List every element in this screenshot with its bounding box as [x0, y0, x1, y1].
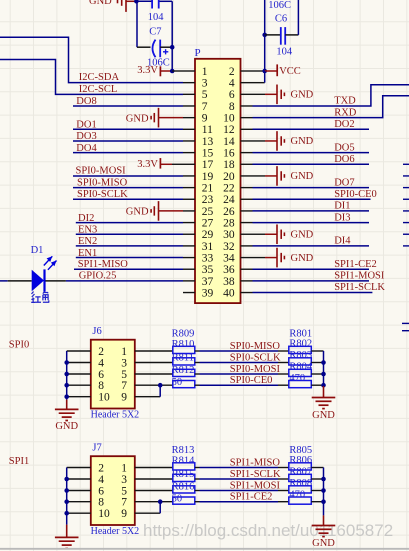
LED D1 on GPIO.25 wire [0, 280, 8, 282]
node [64, 511, 69, 516]
ground pin34 [253, 257, 266, 259]
wire [136, 0, 152, 2]
node cap-loop top-left junction [134, 0, 139, 4]
wire net SPI1-CE2 [195, 501, 200, 503]
pin 36 stub [241, 268, 253, 270]
resistor rect row3 [173, 486, 195, 493]
pin 5 stub [183, 93, 195, 95]
resistor rect right row4 [289, 497, 312, 504]
svg-text:GND: GND [126, 113, 149, 124]
wire [135, 501, 173, 503]
svg-text:GND: GND [291, 229, 314, 240]
svg-text:36: 36 [223, 264, 235, 276]
label red-color (Chinese) [31, 292, 49, 303]
ground right [323, 515, 325, 525]
svg-text:DI1: DI1 [334, 201, 350, 212]
svg-text:GND: GND [312, 538, 335, 549]
wire net GPIO.25 [66, 280, 183, 282]
svg-text:SPI0-SCLK: SPI0-SCLK [230, 353, 281, 364]
pin 21 stub [183, 187, 195, 189]
resistor rect right row1 [289, 463, 312, 470]
pin 14 stub [241, 140, 253, 142]
svg-text:SPI1-MISO: SPI1-MISO [230, 458, 281, 469]
svg-text:GND: GND [291, 136, 314, 147]
wire net I2C-SDA [0, 37, 183, 82]
svg-text:39: 39 [202, 287, 214, 299]
svg-text:SPI0-MISO: SPI0-MISO [230, 341, 281, 352]
resistor rect right row1 [289, 346, 312, 353]
svg-text:J6: J6 [92, 326, 101, 337]
svg-text:30: 30 [223, 229, 235, 241]
svg-text:J7: J7 [92, 443, 101, 454]
pin 30 stub [241, 233, 253, 235]
wire net DI2 [76, 222, 183, 224]
svg-text:SPI0-SCLK: SPI0-SCLK [77, 189, 128, 200]
svg-text:DO5: DO5 [334, 142, 354, 153]
node [64, 499, 69, 504]
wire pin 2 [67, 467, 91, 469]
wire [126, 0, 136, 2]
wire [135, 478, 173, 480]
svg-text:24: 24 [223, 194, 235, 206]
pin 20 stub [241, 175, 253, 177]
svg-text:19: 19 [202, 171, 214, 183]
svg-text:VCC: VCC [279, 66, 301, 77]
svg-text:SPI0-MOSI: SPI0-MOSI [230, 364, 281, 375]
pin 34 stub [241, 257, 253, 259]
wire [311, 478, 323, 480]
wire pin 2 [67, 350, 91, 352]
svg-text:104: 104 [148, 12, 165, 23]
wire net SPI0-MOSI [73, 175, 183, 177]
svg-text:SPI0-CE0: SPI0-CE0 [230, 375, 273, 386]
wire stubs right edge [403, 163, 409, 165]
capacitor C7 value 104 (top, clipped) [151, 0, 153, 9]
wire pin 6 [67, 490, 91, 492]
svg-text:28: 28 [223, 217, 235, 229]
wire net DI3 [253, 222, 370, 224]
wire net DO5 [253, 152, 370, 154]
pin 31 stub [183, 245, 195, 247]
wire gnd bus right [323, 351, 325, 386]
pin 2 stub [241, 70, 253, 72]
svg-text:GND: GND [291, 90, 314, 101]
wire [311, 501, 323, 503]
svg-text:R808: R808 [289, 478, 312, 489]
pin 18 stub [241, 163, 253, 165]
pin 26 stub [241, 210, 253, 212]
wire net SPI0-SCLK [195, 362, 200, 364]
svg-text:470: 470 [289, 373, 305, 384]
svg-text:470: 470 [289, 490, 305, 501]
pin 24 stub [241, 198, 253, 200]
svg-text:R806: R806 [289, 455, 312, 466]
wire gnd bus left [66, 351, 68, 400]
wire [135, 362, 173, 364]
pin 38 stub [241, 280, 253, 282]
svg-text:R814: R814 [172, 455, 196, 466]
wire pin 4 [67, 362, 91, 364]
node [158, 499, 163, 504]
resistor rect right row2 [289, 358, 312, 365]
wire [135, 373, 173, 375]
pin 32 stub [241, 245, 253, 247]
pin 11 stub [183, 128, 195, 130]
svg-text:SPI0-MISO: SPI0-MISO [77, 177, 128, 188]
svg-text:3: 3 [202, 78, 208, 90]
svg-text:34: 34 [223, 252, 235, 264]
pin 40 stub [241, 292, 253, 294]
pin 6 stub [241, 93, 253, 95]
svg-text:13: 13 [202, 136, 214, 148]
svg-text:7: 7 [202, 101, 208, 113]
pin 23 stub [183, 198, 195, 200]
svg-text:Header 5X2: Header 5X2 [91, 526, 140, 537]
node [64, 488, 69, 493]
svg-text:SPI1-MOSI: SPI1-MOSI [334, 271, 385, 282]
pin 4 stub [241, 82, 253, 84]
svg-text:23: 23 [202, 194, 214, 206]
svg-text:SPI1-CE2: SPI1-CE2 [334, 259, 377, 270]
node [321, 360, 326, 365]
svg-text:SPI1-MISO: SPI1-MISO [78, 259, 129, 270]
node [321, 477, 326, 482]
wire [311, 384, 323, 386]
svg-text:50: 50 [172, 377, 183, 388]
svg-text:DO3: DO3 [76, 131, 96, 142]
svg-text:SPI1-SCLK: SPI1-SCLK [334, 282, 385, 293]
svg-text:37: 37 [202, 276, 214, 288]
resistor rect row1 [173, 463, 195, 470]
svg-text:C6: C6 [275, 13, 287, 24]
pin 25 stub [183, 210, 195, 212]
node [321, 499, 326, 504]
svg-text:33: 33 [202, 252, 214, 264]
ground pin14 [253, 140, 266, 142]
resistor rect row3 [173, 369, 195, 376]
svg-text:22: 22 [223, 183, 235, 195]
svg-text:15: 15 [202, 148, 214, 160]
svg-text:9: 9 [121, 392, 127, 404]
wire [311, 373, 323, 375]
power VCC pin2 [262, 69, 267, 74]
svg-text:14: 14 [223, 136, 235, 148]
svg-text:GND: GND [291, 171, 314, 182]
svg-text:EN3: EN3 [78, 224, 97, 235]
pin 27 stub [183, 222, 195, 224]
wire net I2C-SCL [0, 60, 183, 95]
wire [311, 490, 323, 492]
wire pin9 riser [135, 512, 160, 514]
pin 19 stub [183, 175, 195, 177]
svg-text:2: 2 [229, 66, 235, 78]
capacitor C8 polarized 106C [137, 46, 151, 48]
LED emission arrows [44, 256, 53, 265]
wire net DI4 [253, 245, 370, 247]
wire [135, 384, 173, 386]
node [64, 372, 69, 377]
svg-text:Header 5X2: Header 5X2 [91, 409, 140, 420]
pin 3 stub [183, 82, 195, 84]
wire net SPI0-MISO [195, 350, 200, 352]
svg-text:R803: R803 [289, 350, 312, 361]
svg-text:4: 4 [229, 78, 235, 90]
svg-text:4: 4 [98, 474, 104, 486]
svg-text:DI3: DI3 [334, 212, 350, 223]
pin 39 stub [183, 292, 195, 294]
svg-text:3.3V: 3.3V [137, 159, 158, 170]
wire net TXD [253, 85, 409, 106]
svg-text:104: 104 [276, 46, 293, 57]
wire pin 10 [67, 396, 91, 398]
svg-text:DO2: DO2 [334, 119, 354, 130]
svg-text:4: 4 [98, 357, 104, 369]
svg-text:10: 10 [98, 392, 110, 404]
pin 17 stub [183, 163, 195, 165]
svg-text:TXD: TXD [334, 96, 356, 107]
pin 15 stub [183, 152, 195, 154]
resistor rect row2 [173, 358, 195, 365]
svg-text:6: 6 [98, 369, 104, 381]
svg-text:DO7: DO7 [334, 177, 354, 188]
pin 35 stub [183, 268, 195, 270]
wire net DO4 [73, 152, 183, 154]
node [64, 477, 69, 482]
svg-text:D1: D1 [31, 245, 44, 256]
ground J7 left [66, 525, 68, 538]
svg-text:50: 50 [172, 494, 183, 505]
svg-text:DI4: DI4 [334, 236, 351, 247]
wire gnd bus right [323, 468, 325, 516]
pin 22 stub [241, 187, 253, 189]
svg-text:25: 25 [202, 206, 214, 218]
svg-text:DO1: DO1 [76, 120, 96, 131]
pin 29 stub [183, 233, 195, 235]
bottom edge line [0, 548, 409, 550]
pin 12 stub [241, 128, 253, 130]
svg-text:1: 1 [121, 346, 127, 358]
resistor rect row4 [173, 497, 195, 504]
resistor rect right row2 [289, 474, 312, 481]
node [64, 394, 69, 399]
svg-text:17: 17 [202, 159, 214, 171]
pin 9 stub [183, 117, 195, 119]
pin 33 stub [183, 257, 195, 259]
svg-text:18: 18 [223, 159, 235, 171]
pin 8 stub [241, 105, 253, 107]
wire gnd bus left [66, 468, 68, 525]
wire net DO6 [253, 163, 370, 165]
svg-text:GND: GND [126, 207, 149, 218]
svg-text:40: 40 [223, 287, 235, 299]
wire net SPI0-CE0 [253, 198, 371, 200]
wire net EN2 [76, 245, 183, 247]
svg-text:I2C-SCL: I2C-SCL [79, 84, 118, 95]
svg-text:27: 27 [202, 217, 214, 229]
svg-text:DO4: DO4 [76, 143, 97, 154]
wire net DO3 [73, 140, 183, 142]
pin 7 stub [183, 105, 195, 107]
svg-text:SPI0: SPI0 [9, 340, 29, 351]
svg-text:6: 6 [229, 89, 235, 101]
ground pin20 [253, 175, 266, 177]
wire net SPI1-MOSI [195, 490, 200, 492]
wire net RXD [253, 96, 409, 118]
svg-text:GPIO.25: GPIO.25 [79, 271, 117, 282]
wire net SPI1-CE2 [253, 268, 370, 270]
ground J6 left [66, 400, 68, 410]
svg-text:10: 10 [223, 113, 235, 125]
svg-text:https://blog.csdn.net/u0116058: https://blog.csdn.net/u011605872 [143, 521, 393, 540]
svg-text:DO6: DO6 [334, 154, 354, 165]
svg-text:SPI1: SPI1 [9, 456, 29, 467]
wire net SPI1-MISO [195, 467, 200, 469]
ground pin6 [253, 93, 266, 95]
svg-text:GND: GND [55, 421, 78, 432]
svg-text:R815: R815 [172, 469, 195, 480]
wire pin 4 [67, 478, 91, 480]
wire [297, 0, 299, 35]
svg-text:1: 1 [202, 66, 208, 78]
svg-text:GND: GND [89, 0, 112, 7]
wire net DO2 [253, 128, 370, 130]
wire net DI1 [253, 210, 370, 212]
resistor rect row1 [173, 346, 195, 353]
svg-text:38: 38 [223, 276, 235, 288]
svg-text:12: 12 [223, 124, 235, 136]
resistor rect row2 [173, 474, 195, 481]
wire net SPI0-MOSI [195, 373, 200, 375]
svg-text:EN2: EN2 [78, 236, 97, 247]
wire [135, 350, 173, 352]
svg-text:R802: R802 [289, 339, 312, 350]
svg-text:29: 29 [202, 229, 214, 241]
wire [311, 350, 323, 352]
wire net EN3 [76, 233, 183, 235]
resistor rect right row3 [289, 369, 312, 376]
svg-text:SPI0-CE0: SPI0-CE0 [334, 189, 377, 200]
svg-text:2: 2 [98, 462, 104, 474]
svg-text:3: 3 [121, 357, 127, 369]
pin 16 stub [241, 152, 253, 154]
svg-text:SPI1-CE2: SPI1-CE2 [230, 492, 273, 503]
svg-text:GND: GND [291, 253, 314, 264]
wire net SPI1-MISO [74, 268, 183, 270]
svg-text:16: 16 [223, 148, 235, 160]
wire [171, 1, 173, 71]
pin 28 stub [241, 222, 253, 224]
svg-text:31: 31 [202, 241, 214, 253]
svg-text:1: 1 [121, 462, 127, 474]
svg-text:5: 5 [202, 89, 208, 101]
pin 37 stub [183, 280, 195, 282]
wire [311, 362, 323, 364]
svg-text:8: 8 [98, 497, 104, 509]
svg-text:35: 35 [202, 264, 214, 276]
wire net SPI1-SCLK [195, 478, 200, 480]
svg-text:R804: R804 [289, 362, 313, 373]
node [321, 488, 326, 493]
wire [311, 467, 323, 469]
wire net SPI0-MISO [73, 187, 183, 189]
svg-text:R811: R811 [172, 352, 194, 363]
resistor rect right row3 [289, 486, 312, 493]
node [170, 45, 175, 50]
svg-text:R807: R807 [289, 467, 312, 478]
svg-text:C7: C7 [149, 26, 161, 37]
svg-text:5: 5 [121, 369, 127, 381]
wire net SPI1-MOSI [253, 280, 370, 282]
svg-text:9: 9 [202, 113, 208, 125]
svg-text:21: 21 [202, 183, 214, 195]
svg-text:20: 20 [223, 171, 235, 183]
wire pin 8 [67, 384, 91, 386]
node [321, 383, 326, 388]
svg-text:DO8: DO8 [76, 96, 96, 107]
wire [135, 467, 173, 469]
svg-text:SPI0-MOSI: SPI0-MOSI [76, 166, 127, 177]
wire pin 10 [67, 512, 91, 514]
svg-text:DI2: DI2 [78, 213, 94, 224]
pin 13 stub [183, 140, 195, 142]
svg-text:7: 7 [121, 380, 127, 392]
svg-text:8: 8 [229, 101, 235, 113]
svg-text:6: 6 [98, 485, 104, 497]
svg-text:10: 10 [98, 508, 110, 520]
node [158, 383, 163, 388]
svg-text:5: 5 [121, 485, 127, 497]
pin 1 stub [183, 70, 195, 72]
pin 10 stub [241, 117, 253, 119]
svg-text:SPI1-MOSI: SPI1-MOSI [230, 481, 281, 492]
wire net SPI1-SCLK [253, 292, 373, 294]
wire [135, 490, 173, 492]
svg-text:7: 7 [121, 497, 127, 509]
node [170, 69, 175, 74]
node [321, 372, 326, 377]
svg-text:9: 9 [121, 508, 127, 520]
svg-text:R810: R810 [172, 339, 195, 350]
svg-text:3: 3 [121, 474, 127, 486]
wire pin 6 [67, 373, 91, 375]
wire pin2 to VCC junction [253, 70, 265, 72]
wire pin 8 [67, 501, 91, 503]
svg-text:R812: R812 [172, 365, 195, 376]
wire pin9 riser [135, 396, 160, 398]
svg-text:RXD: RXD [334, 107, 357, 118]
node [64, 383, 69, 388]
wire net SPI0-CE0 [195, 384, 200, 386]
svg-text:I2C-SDA: I2C-SDA [79, 72, 120, 83]
svg-text:11: 11 [202, 124, 213, 136]
svg-text:8: 8 [98, 380, 104, 392]
wire net DO7 [253, 187, 370, 189]
svg-text:SPI1-SCLK: SPI1-SCLK [230, 469, 281, 480]
svg-text:3.3V: 3.3V [137, 65, 158, 76]
svg-text:GND: GND [312, 410, 335, 421]
wire net DO8 [73, 105, 183, 107]
ground right [323, 386, 325, 397]
svg-text:2: 2 [98, 346, 104, 358]
svg-text:P: P [195, 47, 201, 59]
wire net SPI0-SCLK [73, 198, 183, 200]
wire net EN1 [76, 257, 183, 259]
node [64, 360, 69, 365]
wire [136, 1, 138, 47]
wire pin4 to VCC [253, 82, 265, 84]
ground pin30 [253, 233, 266, 235]
svg-text:32: 32 [223, 241, 235, 253]
